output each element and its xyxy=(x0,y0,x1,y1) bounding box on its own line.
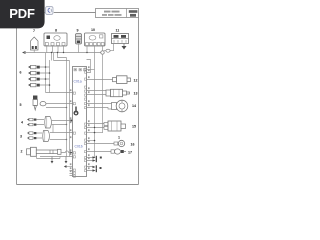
svg-text:10: 10 xyxy=(91,28,95,32)
svg-text:9: 9 xyxy=(77,29,79,33)
injector 6b xyxy=(28,71,40,74)
wire ECU right y133 xyxy=(87,132,103,134)
component 12 wire xyxy=(87,79,113,81)
wire: 11 to bus circle xyxy=(110,44,114,51)
component 13 wires xyxy=(87,91,107,95)
drop arrow a xyxy=(51,157,54,164)
component 11 (connector block) xyxy=(112,34,129,44)
component 16 wire xyxy=(87,143,118,145)
injector 6a xyxy=(28,65,40,68)
wire ECU right y140 xyxy=(87,140,95,142)
wire: oval to circle xyxy=(104,50,107,53)
wire ECU right y72 xyxy=(87,60,91,73)
bottom right pin pair A wires xyxy=(87,158,93,161)
drop arrow b xyxy=(65,157,68,164)
ECU right terminal marks xyxy=(85,68,87,172)
page background xyxy=(0,0,149,198)
bottom right pin pair B wires xyxy=(87,167,93,171)
svg-text:3: 3 xyxy=(20,135,22,139)
injector bus verticals xyxy=(46,53,73,93)
wire: 2 to ECU xyxy=(61,151,70,153)
ECU left terminal marks xyxy=(73,92,75,177)
frame left border xyxy=(16,13,18,185)
svg-text:12: 12 xyxy=(134,79,138,83)
svg-text:13: 13 xyxy=(134,92,138,96)
pin pair B xyxy=(93,165,102,172)
component 5 (spark plug sensor) xyxy=(33,96,46,111)
ECU bottom-left arrow xyxy=(64,165,73,168)
wire: 7 to ground bus xyxy=(33,50,35,53)
component 7 (flask sensor) xyxy=(31,37,39,50)
wires: 3 to ECU xyxy=(50,125,73,140)
left continuation arrow xyxy=(22,51,26,54)
component 4 (twin sensors + connector) xyxy=(27,117,52,129)
component 9 (sensor cylinder) xyxy=(76,34,82,45)
frame top border xyxy=(17,12,96,14)
svg-text:16: 16 xyxy=(131,143,135,147)
component 12 (valve connector) xyxy=(113,76,131,84)
injector 6c xyxy=(28,77,40,80)
left bus verticals xyxy=(67,58,70,157)
component 2 (lambda sensor) xyxy=(27,147,62,156)
inline connector oval xyxy=(106,49,110,52)
component 17 wire xyxy=(87,151,112,153)
component 16 (sensor round) xyxy=(114,140,125,146)
ground under 11 xyxy=(122,44,127,50)
ECU top terminals xyxy=(74,69,86,71)
component 14 (pump motor) xyxy=(112,100,128,112)
svg-text:C01a: C01a xyxy=(74,80,82,84)
svg-text:PDF: PDF xyxy=(9,6,35,21)
wires: below bus verticals xyxy=(52,53,70,61)
component 13 (solenoid valve) xyxy=(106,89,130,96)
svg-text:14: 14 xyxy=(132,104,136,108)
wire ECU right y69 xyxy=(87,69,95,71)
arrow into ECU xyxy=(71,119,74,122)
component 17 (injector style) xyxy=(111,149,126,154)
wire: 9 down to bus xyxy=(78,44,80,53)
wires: 10 terminals down xyxy=(87,46,103,144)
injector junction dots xyxy=(45,66,47,68)
frame bottom border xyxy=(17,184,139,186)
right bus verticals xyxy=(95,54,103,157)
injector 6d xyxy=(28,83,40,86)
injector stub wires xyxy=(40,67,50,85)
wires: 4 to ECU xyxy=(52,121,71,125)
svg-text:6: 6 xyxy=(20,71,22,75)
shield clamp symbol xyxy=(74,107,79,116)
svg-text:5: 5 xyxy=(20,103,22,107)
logo xyxy=(45,6,54,15)
wires: 5 to buses xyxy=(46,104,73,108)
svg-text:7: 7 xyxy=(33,29,35,33)
svg-text:11: 11 xyxy=(116,29,120,33)
bracket under 2 xyxy=(37,157,61,159)
pin pair A xyxy=(93,156,102,162)
title block xyxy=(96,9,139,18)
svg-text:2: 2 xyxy=(21,150,23,154)
component 8 (relay box) xyxy=(44,33,67,46)
component 14 wires xyxy=(87,104,112,110)
bus end circle xyxy=(101,51,104,54)
ECU box xyxy=(73,67,87,177)
pin number specks xyxy=(70,66,90,172)
PDF badge xyxy=(0,0,45,28)
bottom wire with drop arrows xyxy=(40,156,73,158)
junction dots bus xyxy=(51,52,52,53)
component 3 (twin sensors + connector) xyxy=(27,131,50,142)
svg-text:4: 4 xyxy=(21,121,23,125)
svg-text:1: 1 xyxy=(118,135,120,139)
component 10 (relay box) xyxy=(85,33,106,46)
svg-text:17: 17 xyxy=(128,151,132,155)
frame right border xyxy=(138,13,140,185)
svg-text:8: 8 xyxy=(55,29,57,33)
svg-text:15: 15 xyxy=(132,125,136,129)
svg-text:C01b: C01b xyxy=(75,145,83,149)
component 15 (throttle body) xyxy=(104,121,126,131)
wires: 8 terminals down xyxy=(47,46,64,53)
ECU bottom-left stubs xyxy=(70,171,73,176)
ground bus wire xyxy=(24,52,101,54)
component 15 wires xyxy=(87,124,105,128)
junction dot xyxy=(86,52,87,53)
